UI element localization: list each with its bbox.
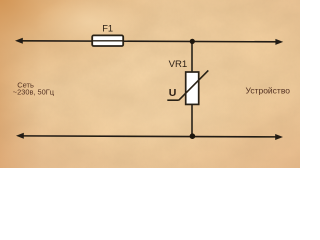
svg-text:U: U (169, 87, 177, 99)
varistor tail (167, 99, 179, 101)
wire vertical branch upper (191, 41, 193, 72)
arrowhead top-left (15, 38, 23, 44)
junction node top (190, 39, 195, 44)
arrowhead bottom-right (275, 134, 283, 140)
junction node bottom (190, 133, 196, 139)
arrowhead bottom-left (16, 133, 24, 139)
varistor diagonal stroke (179, 70, 209, 100)
arrowhead top-right (275, 39, 283, 45)
svg-text:Устройство: Устройство (246, 85, 291, 95)
varistor VR1 body (167, 70, 208, 104)
svg-text:VR1: VR1 (169, 59, 188, 70)
svg-text:F1: F1 (102, 23, 113, 33)
svg-text:~230в, 50Гц: ~230в, 50Гц (13, 88, 55, 97)
schematic drawing group (13, 23, 290, 140)
fuse F1 body (92, 35, 123, 46)
wire bottom line (21, 136, 278, 137)
paper background (0, 0, 300, 168)
wire vertical branch lower (191, 104, 193, 136)
wire top line (20, 41, 278, 42)
